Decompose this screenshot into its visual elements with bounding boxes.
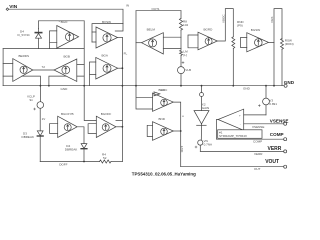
wire BELM output <box>136 42 142 44</box>
op-amp BGSW <box>247 33 269 52</box>
junction dots rail <box>83 85 275 87</box>
svg-text:+: + <box>239 114 241 118</box>
resistor LM <box>180 50 183 66</box>
svg-text:OUT: OUT <box>254 167 261 171</box>
wire BGRD output loop <box>217 9 233 41</box>
svg-text:72: 72 <box>42 65 46 69</box>
svg-text:VSENSE: VSENSE <box>270 119 289 124</box>
wire BGO cell left <box>38 21 40 29</box>
label VCLP 9n <box>27 94 35 102</box>
port VIN <box>6 8 9 11</box>
wire BGB outputs <box>77 64 84 76</box>
wire BGCFYB inputs <box>50 124 58 134</box>
label LM L <box>183 49 188 56</box>
label D4 D_SYNC <box>18 30 31 38</box>
label RND P5 <box>237 20 244 28</box>
wire BGSW out down <box>273 42 275 85</box>
wire BND inputs <box>147 125 152 136</box>
svg-text:* BGO: * BGO <box>59 20 68 24</box>
svg-text:-: - <box>240 122 241 126</box>
junction riser dots <box>122 67 124 127</box>
wire BGO cell right <box>83 21 85 86</box>
node ROC <box>154 88 168 96</box>
diode D4 DBREAK <box>81 144 87 162</box>
source VCLP <box>34 86 44 131</box>
svg-text:DBREAK: DBREAK <box>22 135 35 139</box>
label R4 52 <box>102 153 107 160</box>
wire BVSW out <box>118 37 123 39</box>
wire crossing to rail <box>84 86 96 121</box>
wire VIN rail <box>9 9 123 23</box>
op-amp BGRD <box>198 32 217 50</box>
svg-text:BND: BND <box>159 117 166 121</box>
junction dot DOFF <box>83 161 85 163</box>
wire BELM cell left <box>135 11 137 86</box>
wire comparator output <box>216 120 283 140</box>
wire BGO cell top <box>39 20 85 22</box>
svg-text:GND: GND <box>61 87 69 91</box>
svg-text:BGB: BGB <box>64 54 70 58</box>
wire drop left <box>22 76 41 86</box>
wire BVSW cell top <box>92 24 123 42</box>
source VLB <box>178 62 185 86</box>
svg-text:0.891: 0.891 <box>269 102 277 106</box>
svg-text:BELM: BELM <box>147 28 156 32</box>
wire BGRD inputs <box>188 35 198 48</box>
svg-text:GAIN: GAIN <box>202 106 209 110</box>
wire BGC output riser <box>173 102 180 167</box>
svg-text:STRRAMP_TPS54X: STRRAMP_TPS54X <box>219 134 247 138</box>
op-amp BELM <box>142 33 164 54</box>
source VN <box>195 140 203 151</box>
svg-text:0.7NA: 0.7NA <box>204 143 213 147</box>
op-amp BVSW <box>96 27 118 48</box>
diode D3 DBREAK <box>37 131 43 162</box>
op-amp BGO <box>57 26 79 49</box>
wire VERR <box>200 150 283 152</box>
wire node 72 <box>33 69 54 71</box>
gain block X2 GAIN <box>194 111 209 140</box>
wire BELM inputs <box>163 37 181 48</box>
svg-text:COMP: COMP <box>270 132 284 137</box>
wire DOFF rail <box>40 161 99 163</box>
wire BND output <box>173 130 180 132</box>
svg-text:(RON): (RON) <box>285 42 294 46</box>
label V3 0.891 <box>269 99 277 107</box>
svg-text:VGS: VGS <box>270 17 274 23</box>
svg-text:DOFF: DOFF <box>59 162 67 166</box>
port COMP <box>284 138 287 141</box>
junction BELM rail dot <box>135 85 137 87</box>
label X2 GAIN <box>202 102 209 110</box>
wire drop right <box>49 76 66 86</box>
svg-text:u: u <box>182 114 184 118</box>
svg-text:VSENSE: VSENSE <box>252 125 264 129</box>
svg-text:BGC: BGC <box>159 88 166 92</box>
svg-text:VLB: VLB <box>185 68 191 72</box>
port GND <box>284 84 287 87</box>
resistor RSW RON <box>281 39 284 86</box>
wire V3 branch <box>265 86 267 98</box>
resistor R5 <box>232 37 235 86</box>
op-amp BERDS <box>13 59 33 82</box>
inverter bubble X2 <box>200 86 204 111</box>
wire BGOFF inputs <box>88 124 96 134</box>
svg-text:IN: IN <box>126 4 129 8</box>
svg-text:BGCFYB: BGCFYB <box>61 112 74 116</box>
wire BERDS cell top <box>3 48 84 50</box>
wire GND rail <box>3 85 284 87</box>
svg-text:TPS54310_02.06.05_HaYaming: TPS54310_02.06.05_HaYaming <box>132 172 196 177</box>
wire BERDS cell left <box>2 49 4 86</box>
box U1 STRRAMP <box>218 130 262 139</box>
wire BGC inputs <box>136 86 153 109</box>
wire BGOFF output <box>116 126 123 128</box>
svg-text:9n: 9n <box>30 98 34 102</box>
wire BGCFYB output <box>77 127 84 144</box>
junction dot BND out <box>180 130 182 132</box>
svg-text:VERR: VERR <box>268 146 282 152</box>
wire BVSW inputs <box>92 32 96 42</box>
op-amp BND <box>153 122 174 141</box>
wire BGA inputs <box>90 62 96 86</box>
resistor R8 <box>179 11 182 51</box>
svg-text:DBREAK: DBREAK <box>65 147 78 151</box>
svg-text:BGA: BGA <box>102 53 109 57</box>
svg-text:OUT1: OUT1 <box>152 7 160 11</box>
port VERR <box>284 150 287 153</box>
source V3 <box>258 98 269 115</box>
svg-text:FL: FL <box>124 52 128 56</box>
wire riser left branch <box>116 120 123 122</box>
wire VOUT <box>181 166 284 168</box>
wire comparator plus input <box>244 114 266 116</box>
wire VIN inner corner <box>115 24 123 31</box>
svg-text:(P9): (P9) <box>237 24 243 28</box>
label VN 0.7NA <box>204 139 213 146</box>
svg-text:104: 104 <box>183 23 188 27</box>
wire BGSW inputs <box>241 38 247 48</box>
wire BERDS inputs <box>3 64 13 77</box>
svg-text:52: 52 <box>103 156 107 160</box>
svg-text:VERR: VERR <box>254 152 263 156</box>
wire BGA out stub <box>118 67 123 69</box>
svg-text:VBGC: VBGC <box>221 14 225 23</box>
label RSW RON <box>285 39 294 47</box>
label plus minus <box>239 114 241 126</box>
svg-text:GND: GND <box>284 80 295 85</box>
op-amp BGOFF <box>96 116 116 137</box>
port VOUT <box>284 165 287 168</box>
op-amp BGA <box>96 57 118 79</box>
op-amp BGB <box>54 59 77 81</box>
label D4 DBREAK <box>65 144 78 152</box>
wire main riser <box>121 38 123 162</box>
svg-text:OUT: OUT <box>180 146 184 153</box>
svg-text:[L]: [L] <box>183 53 187 57</box>
port VSENSE <box>284 122 287 125</box>
junction drop dots <box>40 85 235 87</box>
resistor R4 <box>100 160 123 163</box>
wire BGO inputs <box>50 31 57 49</box>
op-amp BGCFYB <box>58 116 77 137</box>
svg-text:BGSW: BGSW <box>251 28 260 32</box>
wire OUT1 cell top <box>136 10 181 12</box>
svg-text:BGRD: BGRD <box>204 27 214 31</box>
svg-text:GND: GND <box>243 86 251 90</box>
comparator U1 <box>218 109 244 130</box>
label R8 104 <box>183 20 188 28</box>
label D3 DBREAK <box>22 131 35 139</box>
svg-text:BGOFF: BGOFF <box>101 112 112 116</box>
svg-text:VOUT: VOUT <box>265 159 279 165</box>
op-amp BGC <box>153 93 174 111</box>
wire VSENSE <box>244 123 284 125</box>
svg-text:BERDS: BERDS <box>19 54 30 58</box>
svg-text:D_SYNC: D_SYNC <box>18 33 31 37</box>
svg-text:BVSW: BVSW <box>102 20 111 24</box>
diode D4 D_SYNC <box>35 28 41 48</box>
svg-text:COMP: COMP <box>253 140 262 144</box>
wire BGSW output loop <box>269 9 283 43</box>
